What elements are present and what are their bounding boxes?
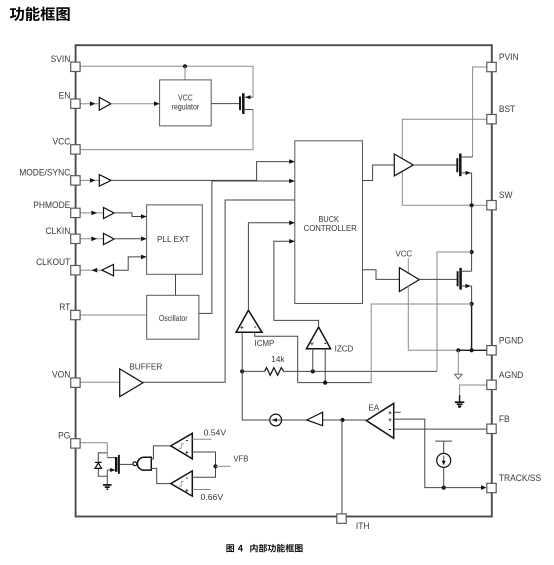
chip outline border xyxy=(76,45,492,516)
resistor 14k xyxy=(265,368,284,376)
node SW junction xyxy=(470,203,474,207)
wire IZCD output to BUCK xyxy=(274,241,319,327)
wire Q1 source to VCC pin rail xyxy=(80,110,253,150)
pin PHMODE xyxy=(71,208,80,217)
node ITH junction xyxy=(340,418,344,422)
Oscillator block xyxy=(147,295,199,339)
arrow into BUCK (MODE/SYNC) xyxy=(289,159,295,164)
arrow PHMODE xyxy=(91,211,97,216)
wire ICMP minus net (IZCD minus rail) xyxy=(298,382,372,384)
buffer CLKOUT (output, points left) xyxy=(102,264,114,275)
transistor Q4 (PG open-drain, mirrored) xyxy=(107,457,115,459)
wire BUCK to low-side driver xyxy=(363,270,400,280)
wire ICMP minus input xyxy=(255,332,298,382)
svg-text:regulator: regulator xyxy=(172,102,200,112)
node VFB junction xyxy=(213,464,217,468)
wire 14k right to SW sense xyxy=(284,370,437,372)
svg-text:CLKOUT: CLKOUT xyxy=(36,257,71,268)
pin RT xyxy=(71,310,80,319)
wire driver ground drop xyxy=(408,286,458,350)
wire EA plus2 to TRACK/SS xyxy=(394,419,485,488)
wire VCC to low-side driver xyxy=(407,258,409,273)
wire ICMP output to BUCK xyxy=(248,223,294,310)
node PGND junction xyxy=(470,348,474,352)
wire PHMODE to buffer xyxy=(80,212,104,214)
arrow into VCC regulator xyxy=(154,101,160,106)
gate U2 NAND (PG logic) xyxy=(133,462,137,466)
op-amp PG upper comparator (0.54V) xyxy=(171,433,193,459)
svg-text:FB: FB xyxy=(499,413,510,424)
svg-text:+: + xyxy=(240,325,244,332)
wire I1 to buffer xyxy=(282,419,307,421)
wire EA plus stub xyxy=(394,411,401,413)
svg-text:PHMODE: PHMODE xyxy=(33,199,70,210)
svg-text:AGND: AGND xyxy=(499,369,524,380)
svg-text:PGND: PGND xyxy=(499,335,524,346)
svg-text:TRACK/SS: TRACK/SS xyxy=(499,473,541,484)
arrow into BUCK (IZCD) xyxy=(289,239,295,244)
node ICMP plus junction xyxy=(240,369,244,373)
svg-text:SVIN: SVIN xyxy=(51,53,71,64)
buffer high-side gate driver xyxy=(394,154,413,176)
wire NAND input B xyxy=(151,468,171,483)
arrow CLKIN xyxy=(91,237,97,242)
title 功能框图 xyxy=(10,7,70,21)
svg-text:EN: EN xyxy=(59,90,71,101)
pin SW xyxy=(487,201,496,210)
wire ITH drop xyxy=(341,420,343,514)
node IZCD minus junction xyxy=(323,381,327,385)
wire MODE/SYNC buffer to BUCK CONTROLLER xyxy=(111,162,295,181)
svg-text:14k: 14k xyxy=(271,355,285,364)
buffer EN xyxy=(99,97,111,110)
svg-text:VCC: VCC xyxy=(395,249,412,258)
svg-text:ITH: ITH xyxy=(356,520,370,531)
svg-text:VON: VON xyxy=(52,369,70,380)
pin FB xyxy=(487,424,496,433)
ground AGND (signal ground) xyxy=(459,395,461,402)
op-amp ICMP xyxy=(236,310,262,332)
ground below Q4 xyxy=(106,476,108,485)
wire VON to BUFFER xyxy=(80,381,120,383)
arrow into BUCK (ICMP) xyxy=(289,221,295,226)
wire Q4 gate to NAND xyxy=(120,463,133,465)
wire BUCK to high-side driver xyxy=(363,165,395,181)
buffer MODE/SYNC xyxy=(99,175,111,187)
wire SW to low-side drain xyxy=(471,205,473,271)
wire PVIN rail xyxy=(473,67,487,157)
buffer CLKIN xyxy=(104,233,115,244)
wire Q3 source to PGND xyxy=(471,304,473,351)
svg-text:PVIN: PVIN xyxy=(499,52,519,63)
pin EN xyxy=(71,99,80,108)
wire IZCD plus input xyxy=(312,349,314,372)
op-amp IZCD xyxy=(306,327,330,349)
svg-text:0.54V: 0.54V xyxy=(204,428,227,438)
pin TRACK/SS xyxy=(487,483,496,492)
svg-text:Oscillator: Oscillator xyxy=(159,313,188,323)
wire PHMODE buffer to PLL xyxy=(114,213,147,217)
svg-text:BST: BST xyxy=(499,104,516,115)
wire MODE/SYNC to buffer xyxy=(80,179,99,181)
wire Oscillator to BUCK CONTROLLER xyxy=(199,181,295,313)
pin MODE/SYNC xyxy=(71,176,80,185)
wire SVIN rail xyxy=(80,66,253,97)
caption 图4 内部功能框图 xyxy=(226,544,234,552)
arrow MODE/SYNC xyxy=(90,178,96,183)
arrow into TRACK/SS xyxy=(481,485,487,490)
op-amp EA xyxy=(367,403,394,438)
pin VON xyxy=(71,378,80,387)
wire BST bootstrap loop xyxy=(402,119,487,158)
svg-text:ICMP: ICMP xyxy=(254,339,274,348)
node Q3 source junction xyxy=(470,302,474,306)
buffer low-side gate driver xyxy=(399,268,419,292)
PLL EXT block xyxy=(147,205,203,274)
svg-text:SW: SW xyxy=(499,190,513,201)
svg-text:+: + xyxy=(310,341,314,348)
wire SW pin xyxy=(472,204,487,206)
wire NAND input A xyxy=(151,446,171,459)
svg-text:CONTROLLER: CONTROLLER xyxy=(304,224,357,233)
VCC regulator U-reg box xyxy=(160,80,212,126)
wire CLKIN to buffer xyxy=(80,238,104,240)
svg-text:RT: RT xyxy=(59,302,71,313)
svg-text:VCC: VCC xyxy=(52,136,70,147)
current source I2 (soft-start) xyxy=(435,440,452,442)
svg-text:+: + xyxy=(185,450,189,457)
wire CLKOUT from buffer xyxy=(80,269,102,271)
wire CLKOUT buffer to PLL xyxy=(114,257,147,270)
wire IZCD minus input xyxy=(324,349,326,383)
pin VCC xyxy=(71,145,80,154)
wire sense rail to Q3 source xyxy=(371,304,471,383)
svg-text:PG: PG xyxy=(58,430,70,441)
buffer BUFFER (VON) xyxy=(120,369,143,397)
wire PG pin to Q4 xyxy=(80,443,107,458)
wire PG lower minus to VFB xyxy=(192,466,215,477)
pin PG xyxy=(71,439,80,448)
pin SVIN xyxy=(71,62,80,71)
svg-text:PLL EXT: PLL EXT xyxy=(157,235,189,244)
wire driver to Q3 gate xyxy=(419,278,457,280)
buffer PHMODE xyxy=(104,208,115,219)
wire EN to buffer xyxy=(80,103,99,105)
pin PGND xyxy=(487,346,496,355)
svg-text:CLKIN: CLKIN xyxy=(45,225,70,236)
wire VCC regulator output to Q1 gate xyxy=(211,103,239,105)
current source I1 (EA rail) xyxy=(270,414,282,426)
arrow CLKOUT (to pin) xyxy=(92,268,98,273)
wire VFB stub xyxy=(216,465,231,467)
arrow into PLL (PHMODE) xyxy=(141,214,147,219)
pin ITH xyxy=(337,514,346,523)
wire BUFFER to BUCK CONTROLLER xyxy=(143,200,295,382)
svg-text:-: - xyxy=(389,425,392,434)
pin PVIN xyxy=(487,62,496,71)
pin CLKOUT xyxy=(71,266,80,275)
svg-text:EA: EA xyxy=(368,403,379,412)
arrow EN xyxy=(90,101,96,106)
wire 0.54V reference xyxy=(192,438,211,440)
node PGND sense junction xyxy=(456,348,460,352)
wire CLKIN buffer to PLL xyxy=(114,238,147,240)
wire SW sense tap to current sense line xyxy=(437,252,472,371)
svg-text:0.66V: 0.66V xyxy=(201,492,224,502)
node IZCD plus junction xyxy=(311,369,315,373)
transistor Q2 (high-side NMOS) xyxy=(456,158,458,172)
arrow into PLL (CLKIN) xyxy=(141,237,147,242)
wire ICMP plus input xyxy=(241,332,243,371)
wire EN buffer to VCC regulator xyxy=(111,103,160,105)
node SW sense tap xyxy=(470,250,474,254)
arrow into BUCK (Oscillator) xyxy=(289,179,295,184)
wire RT to Oscillator xyxy=(80,314,147,316)
wire PG upper plus to VFB xyxy=(192,452,215,466)
ground (open arrow) below PGND line xyxy=(457,350,459,374)
diode D1 (Q4 body diode) xyxy=(98,453,107,476)
wire ICMP node to EA rail xyxy=(242,371,270,420)
wire driver to Q2 gate xyxy=(413,164,456,166)
pin CLKIN xyxy=(71,234,80,243)
svg-text:IZCD: IZCD xyxy=(335,345,354,354)
transistor Q3 (low-side NMOS) xyxy=(457,271,459,286)
buffer (points left, EA rail) xyxy=(307,412,323,426)
node TRACK/SS junction xyxy=(442,486,446,490)
op-amp PG lower comparator (0.66V) xyxy=(171,471,193,496)
transistor Q1 (SVIN to VCC pass FET) xyxy=(239,97,241,111)
svg-text:BUFFER: BUFFER xyxy=(129,361,162,371)
svg-text:+: + xyxy=(388,417,392,424)
svg-text:MODE/SYNC: MODE/SYNC xyxy=(19,167,71,178)
wire 14k left segment xyxy=(242,370,264,372)
arrow into PLL (CLKOUT) xyxy=(141,255,147,260)
wire AGND pin xyxy=(460,385,487,396)
wire 0.66V reference xyxy=(192,489,210,491)
pin BST xyxy=(487,115,496,124)
wire PGND pin xyxy=(458,349,487,351)
BUCK CONTROLLER block xyxy=(295,141,363,304)
pin AGND xyxy=(487,380,496,389)
wire EA minus to FB xyxy=(394,428,487,430)
node SVIN-VCCreg junction xyxy=(183,64,187,68)
wire PLL EXT to Oscillator xyxy=(175,274,177,295)
svg-text:+: + xyxy=(185,487,189,494)
wire buffer to EA xyxy=(323,419,367,421)
svg-text:VFB: VFB xyxy=(233,454,249,463)
